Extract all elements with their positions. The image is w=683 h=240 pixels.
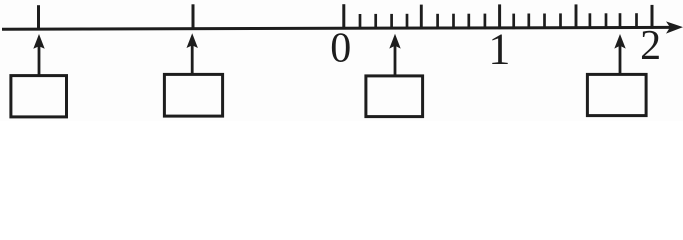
minor ticks 1 to 2	[514, 13, 637, 29]
major tick -1	[192, 4, 195, 30]
up arrow 3	[389, 34, 400, 75]
axis arrowhead	[666, 21, 683, 33]
up arrow 2	[187, 33, 198, 73]
svg-text:1: 1	[488, 24, 510, 73]
minor ticks 0 to 1	[360, 14, 485, 30]
mid tick 0.5	[420, 5, 423, 30]
up arrow 1	[33, 34, 44, 75]
answer box 2	[164, 74, 222, 116]
major tick -2	[37, 5, 40, 30]
major tick 0	[342, 4, 345, 29]
answer box 3	[366, 76, 423, 117]
major tick 2	[651, 5, 654, 29]
major tick 1	[498, 4, 501, 29]
number line axis	[2, 27, 670, 29]
up arrow 4	[614, 34, 625, 74]
answer box 4	[587, 74, 646, 115]
mid tick 1.5	[575, 4, 578, 29]
answer box 1	[11, 76, 67, 117]
svg-text:2: 2	[640, 23, 661, 69]
svg-text:0: 0	[330, 26, 351, 72]
